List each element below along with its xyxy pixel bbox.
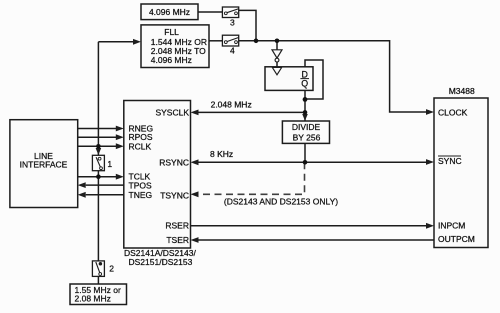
svg-text:FLL: FLL bbox=[164, 27, 179, 37]
svg-text:SYSCLK: SYSCLK bbox=[155, 108, 189, 118]
svg-text:OUTPCM: OUTPCM bbox=[438, 234, 475, 244]
svg-text:RCLK: RCLK bbox=[129, 141, 152, 151]
svg-text:INPCM: INPCM bbox=[438, 221, 465, 231]
svg-text:3: 3 bbox=[230, 17, 235, 27]
svg-text:RSYNC: RSYNC bbox=[159, 157, 189, 167]
svg-text:2.048 MHz: 2.048 MHz bbox=[211, 99, 252, 109]
svg-text:RSER: RSER bbox=[165, 221, 189, 231]
svg-text:INTERFACE: INTERFACE bbox=[20, 160, 68, 170]
svg-text:2: 2 bbox=[109, 264, 114, 274]
svg-text:1: 1 bbox=[107, 159, 112, 169]
svg-text:2.08 MHz: 2.08 MHz bbox=[75, 294, 111, 304]
svg-text:CLOCK: CLOCK bbox=[438, 108, 468, 118]
svg-text:DS2151/DS2153: DS2151/DS2153 bbox=[129, 257, 193, 267]
svg-text:SYNC: SYNC bbox=[438, 156, 462, 166]
svg-text:Q: Q bbox=[301, 78, 308, 88]
svg-text:BY 256: BY 256 bbox=[293, 132, 321, 142]
svg-text:4.096 MHz: 4.096 MHz bbox=[151, 55, 192, 65]
svg-text:M3488: M3488 bbox=[449, 86, 475, 96]
svg-text:TSYNC: TSYNC bbox=[160, 190, 189, 200]
svg-text:4.096 MHz: 4.096 MHz bbox=[149, 7, 190, 17]
svg-text:4: 4 bbox=[230, 46, 235, 56]
svg-text:8 KHz: 8 KHz bbox=[210, 149, 233, 159]
svg-text:DIVIDE: DIVIDE bbox=[292, 122, 321, 132]
svg-text:TSER: TSER bbox=[166, 235, 189, 245]
svg-text:TNEG: TNEG bbox=[129, 190, 153, 200]
svg-text:(DS2143 AND DS2153 ONLY): (DS2143 AND DS2153 ONLY) bbox=[224, 197, 338, 207]
